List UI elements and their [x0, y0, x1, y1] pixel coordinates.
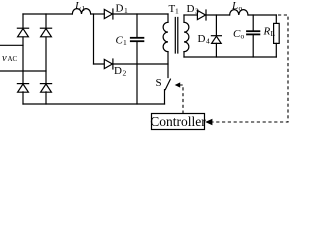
svg-text:1: 1	[124, 6, 128, 15]
transformer T1 primary winding	[163, 14, 168, 78]
svg-text:S: S	[156, 77, 162, 89]
svg-text:D: D	[116, 3, 124, 15]
arrowhead at switch	[175, 82, 181, 87]
capacitor C1	[131, 14, 144, 104]
svg-text:o: o	[241, 32, 245, 41]
node A drop wire	[93, 14, 95, 64]
svg-text:D: D	[187, 3, 195, 15]
svg-text:L: L	[74, 0, 81, 12]
wire bottom rail	[23, 103, 165, 105]
svg-text:AC: AC	[8, 55, 18, 63]
bridge left leg wire	[22, 14, 24, 104]
dashed gate drive line controller to switch	[180, 85, 184, 114]
svg-text:L: L	[271, 29, 276, 38]
bridge right leg wire	[45, 14, 47, 104]
svg-text:o: o	[239, 4, 243, 13]
controller box	[152, 114, 205, 130]
svg-text:3: 3	[195, 7, 199, 16]
bridge diode bottom-left	[17, 84, 28, 93]
wire Lo to output corner	[248, 14, 276, 16]
transformer T1 core	[175, 18, 178, 54]
bridge diode bottom-right	[40, 84, 51, 93]
arrowhead at controller	[205, 119, 212, 125]
wire output bottom rail	[184, 56, 276, 58]
switch S bottom wire	[164, 90, 166, 104]
wire ac input upper	[0, 44, 23, 46]
wire top rail bridge to L1	[23, 13, 72, 15]
bridge diode top-left	[17, 28, 28, 37]
inductor Lo	[230, 10, 248, 15]
svg-text:1: 1	[175, 7, 179, 16]
svg-text:D: D	[198, 33, 206, 45]
wire D2 row	[94, 63, 169, 65]
diode D4 freewheel	[211, 15, 221, 57]
svg-text:1: 1	[123, 38, 127, 47]
wire ac input lower	[0, 70, 46, 72]
svg-text:2: 2	[123, 69, 127, 78]
svg-text:4: 4	[206, 37, 210, 46]
transformer T1 secondary winding	[184, 15, 189, 57]
wire D3 to Lo	[206, 14, 230, 16]
diode D3	[197, 10, 206, 20]
svg-text:R: R	[263, 26, 271, 38]
svg-text:L: L	[231, 0, 238, 12]
bridge diode top-right	[40, 28, 51, 37]
svg-text:1: 1	[82, 4, 86, 13]
diode D2	[104, 59, 113, 69]
wire secondary top to D3	[184, 14, 197, 16]
inductor L1	[72, 9, 90, 14]
wire top rail L1 to D1	[91, 13, 105, 15]
capacitor Co	[247, 15, 259, 57]
svg-text:D: D	[114, 65, 122, 77]
diode D1	[104, 9, 113, 19]
switch S blade	[165, 79, 170, 89]
svg-text:Controller: Controller	[150, 114, 206, 129]
wire top rail D1 to transformer	[113, 13, 168, 15]
dashed feedback line output to controller	[213, 15, 289, 122]
svg-text:v: v	[2, 53, 7, 64]
resistor RL	[274, 15, 280, 57]
